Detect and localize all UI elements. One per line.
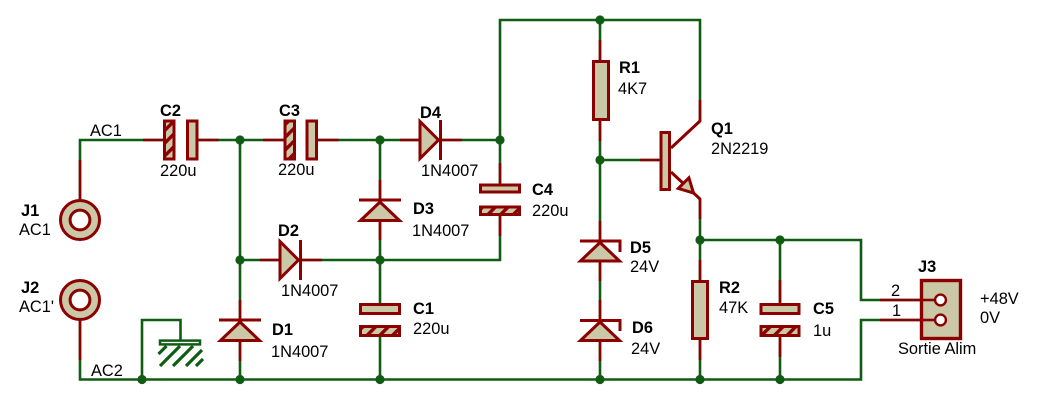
wire AC1 J1 to C2 [80,140,163,200]
wire Q1 emitter to +48V rail, to J3 pin2 [700,199,920,300]
node D2 anode [235,255,244,264]
svg-text:1N4007: 1N4007 [421,162,478,180]
svg-text:C3: C3 [279,102,300,120]
wire ground rail AC2 [80,320,920,380]
node C1 gnd [375,375,384,384]
svg-text:4K7: 4K7 [618,80,647,98]
wire ground symbol branch [142,320,181,380]
wire node240 to D2 [240,259,280,262]
wire R2 top stub [699,240,702,280]
resistor R1 [594,62,609,120]
wire node380 down to C1 [379,260,382,303]
connector J2 [61,281,100,320]
pins J3 [880,299,936,302]
wire C2 to C3 [199,139,284,142]
svg-text:Q1: Q1 [711,120,733,138]
svg-text:2: 2 [891,282,900,300]
ground [159,341,204,366]
pins C2 [143,139,164,142]
svg-text:AC2: AC2 [91,362,123,380]
resistor R2 [693,282,708,339]
wire base node: R1 bottom to Q1 base and D5 [600,121,659,160]
node D6 gnd [595,375,604,384]
svg-text:2N2219: 2N2219 [711,140,768,158]
svg-text:1N4007: 1N4007 [281,282,338,300]
wire node380 down to D3 [379,140,382,200]
node C3/D3 [375,135,384,144]
wire node240 vertical [239,140,242,260]
pin J1 [79,160,82,200]
wire node500 down to C4 [499,140,502,183]
svg-text:C5: C5 [813,300,834,318]
svg-text:24V: 24V [630,258,659,276]
pin Q1 emitter stub [699,198,702,219]
svg-text:0V: 0V [980,309,1000,327]
svg-text:220u: 220u [278,161,314,179]
svg-text:C4: C4 [532,181,554,199]
wire C1 bottom stub [379,337,382,380]
zener D6 [580,321,620,341]
connector J3 [920,281,961,339]
node R2 gnd [695,375,704,384]
wire C3 to D4 with branch at 380 [317,139,420,142]
svg-text:J1: J1 [21,202,39,220]
pins C5 [779,280,782,304]
node D4 out [495,135,504,144]
wire base node down to D5 [599,160,602,241]
diode D2 [280,240,301,280]
pin J2 [79,320,82,360]
pins R1 [599,40,602,61]
diode D3 [359,200,401,221]
svg-text:220u: 220u [160,162,196,180]
svg-text:R1: R1 [619,59,640,77]
svg-text:D4: D4 [420,104,442,122]
diode D1 [219,320,261,341]
pin Q1 collector stub [699,100,702,122]
pins D2 [260,259,281,262]
pins D3 [379,180,382,200]
pins D5 [599,221,602,241]
capacitor C1 [361,305,400,336]
node gnd symbol [137,375,146,384]
svg-text:1N4007: 1N4007 [271,343,328,361]
svg-text:D6: D6 [632,319,653,337]
svg-text:J3: J3 [918,258,936,276]
svg-text:1N4007: 1N4007 [412,222,469,240]
transistor Q1 [661,121,700,199]
node D1 gnd [235,375,244,384]
svg-text:+48V: +48V [980,290,1019,308]
wire D6 bottom stub [599,341,602,380]
svg-text:J2: J2 [21,279,39,297]
svg-text:D2: D2 [278,222,299,240]
wire D1 bottom stub [239,341,242,380]
wire R2 bottom stub [699,340,702,380]
svg-text:220u: 220u [532,202,568,220]
capacitor C2 [165,121,198,159]
svg-text:C1: C1 [413,300,434,318]
wire C4 bottom to node380 [380,216,500,260]
svg-text:AC1': AC1' [19,298,54,316]
node D2 cathode [375,255,384,264]
pins C3 [263,139,285,142]
node C5 gnd [775,375,784,384]
svg-text:220u: 220u [413,320,449,338]
capacitor C5 [761,305,799,336]
svg-text:R2: R2 [719,279,740,297]
pins R2 [699,260,702,281]
node C2/C3 [235,135,244,144]
pins C4 [499,163,502,184]
svg-text:C2: C2 [160,102,181,120]
capacitor C3 [285,121,317,159]
svg-text:D1: D1 [272,321,293,339]
wire C5 top stub [779,240,782,303]
diode D4 [420,120,441,160]
capacitor C4 [481,185,520,215]
wire D5 to D6 [599,261,602,320]
svg-text:AC1: AC1 [90,122,122,140]
svg-text:D3: D3 [413,200,434,218]
wire D2 to node380 [302,259,380,262]
wire D4 to node500, top rail [441,20,700,140]
svg-text:AC1: AC1 [19,221,51,239]
node top rail / R1 [595,15,604,24]
svg-text:1u: 1u [813,322,831,340]
wire D3 bottom to node380 [379,220,382,260]
connector J1 [61,201,100,240]
pin Q1 base [640,159,661,162]
node C5 top [775,235,784,244]
node emitter [695,235,704,244]
wire C5 bottom stub [779,337,782,380]
svg-text:47K: 47K [719,299,748,317]
node base [595,155,604,164]
svg-text:1: 1 [892,302,901,320]
pins D1 [239,300,242,320]
wire D1 top from node240 [239,260,242,320]
wire R1 top stub [599,20,602,60]
svg-text:Sortie Alim: Sortie Alim [898,340,976,358]
svg-text:D5: D5 [630,239,651,257]
pins D4 [400,139,421,142]
zener D5 [580,241,620,261]
svg-text:24V: 24V [631,340,660,358]
pins D6 [599,300,602,320]
